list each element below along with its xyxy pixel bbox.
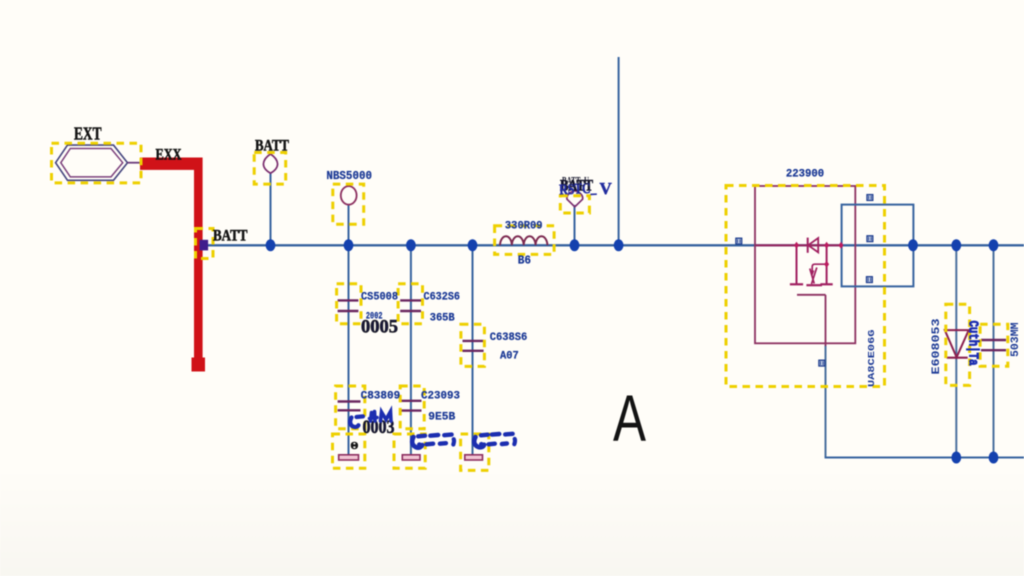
svg-text:BATT: BATT xyxy=(213,228,248,245)
svg-text:Cuth|Ta: Cuth|Ta xyxy=(965,321,980,366)
svg-text:B6: B6 xyxy=(518,255,531,268)
svg-text:Θ: Θ xyxy=(351,441,359,452)
svg-text:C23093: C23093 xyxy=(421,391,460,403)
svg-text:EXX: EXX xyxy=(156,146,183,163)
svg-text:BATT_U: BATT_U xyxy=(562,174,589,188)
svg-text:EXT: EXT xyxy=(74,123,102,143)
svg-text:CS5008: CS5008 xyxy=(361,291,398,303)
svg-text:C638S6: C638S6 xyxy=(490,332,528,344)
svg-text:2002: 2002 xyxy=(366,312,383,323)
svg-text:503MM: 503MM xyxy=(1010,322,1022,357)
svg-text:NBS5000: NBS5000 xyxy=(326,169,372,183)
svg-text:9E5B: 9E5B xyxy=(428,411,455,423)
svg-text:223900: 223900 xyxy=(786,168,824,180)
svg-text:BATT: BATT xyxy=(255,137,289,154)
svg-text:330R09: 330R09 xyxy=(505,220,543,232)
svg-text:C83809: C83809 xyxy=(361,391,401,403)
svg-text:A: A xyxy=(613,381,646,455)
svg-text:A07: A07 xyxy=(500,351,519,363)
svg-text:E608053: E608053 xyxy=(931,318,943,374)
svg-text:UA8CE06G: UA8CE06G xyxy=(866,329,877,387)
svg-text:V: V xyxy=(600,179,613,198)
svg-text:C632S6: C632S6 xyxy=(424,291,461,303)
svg-text:365B: 365B xyxy=(430,312,455,324)
